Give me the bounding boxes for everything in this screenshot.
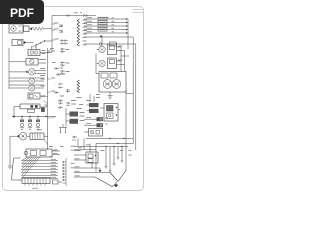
regulator box [24,26,30,32]
bottom labels [86,145,105,151]
alternator G1 [9,24,23,33]
main bus wire [48,16,56,119]
harness fan wires [22,157,59,179]
spark plug P3 [36,117,40,130]
pigtail labels [120,151,132,156]
fused feed wire 2 [84,21,128,24]
pigtail wire 1 [105,147,107,168]
pigtail wire 2 [109,147,111,172]
wire codes [87,18,93,32]
splice labels [71,98,91,109]
fused feed wire 4 [84,28,128,31]
wire [125,144,127,171]
ballast resistor R1 [27,133,48,145]
wire [96,143,133,144]
diode D1 [30,27,33,30]
wire [27,42,33,44]
wire [44,28,52,30]
connector pin C9 [56,73,61,75]
page card background [3,7,144,191]
sensor pin [72,136,77,140]
gauge U2 [28,46,52,55]
horn unit D3 [84,123,108,127]
lower bus wire [48,48,53,150]
label 15 [42,60,46,64]
wire [95,144,97,172]
relay module K3 [108,58,125,69]
wire [74,147,100,150]
thermal breaker wire [84,35,128,41]
relay module K2 [108,44,125,55]
terminal labels [50,49,56,85]
twin relay K4 [100,104,120,122]
misc labels [37,97,48,130]
ground G3 [98,168,101,172]
relay K5 [74,152,98,168]
diode D4 [24,41,27,44]
ground [108,92,113,98]
right bus wire [127,19,129,49]
component codes [119,46,123,60]
wire [101,37,103,46]
connector pin C6 [54,91,59,93]
wire [124,51,126,72]
terminal block TB1 [41,108,45,112]
wire [121,55,129,57]
title block double line [132,10,143,13]
splice node C [66,89,70,93]
fuse block F5 [66,108,78,126]
bus tie wire [100,146,128,147]
feed wire 7 [84,42,120,46]
wire [128,37,133,144]
fuse row labels [80,113,85,121]
wire [74,176,95,178]
inline fuse F9 [53,180,63,184]
splice node A [59,25,63,33]
lamp H4 [97,46,106,52]
pin numbers [112,18,115,32]
connector pin C2 [60,48,65,53]
ecu labels [49,146,82,168]
wire label texture [37,18,132,178]
horn unit D2 [84,117,108,121]
wire [78,139,90,153]
ECU pin header [62,158,66,186]
splice node B [58,83,63,89]
splice wire V [95,171,126,187]
wire [86,138,133,139]
connector pin C8 [54,67,59,69]
blower motor M1 [10,132,27,140]
fused feed wire 3 [84,24,128,27]
motor labels [96,95,100,98]
HT bus wire [12,115,56,118]
spark plug P1 [20,117,24,130]
connector pin pair [60,39,68,45]
wire [74,167,100,169]
junction wire [33,40,52,46]
wire [120,44,136,150]
pigtail wire 4 [117,147,119,159]
fused feed wire 5 [84,32,128,33]
harness labels [51,159,57,177]
multipin connector X3 [18,178,50,186]
connector arrows column X5 [77,80,79,93]
switch S2 [59,124,67,133]
pin labels [83,20,88,45]
fused feed wire 1 [84,17,128,20]
spark plug P2 [28,117,32,130]
wire [9,84,44,86]
ground G2 [114,182,118,188]
ground strap [8,160,12,169]
indicator lamp H3 [9,85,44,91]
node labels [52,50,70,97]
wire [8,48,10,89]
supply rail wire [52,14,109,17]
connector arrows column X4 [77,19,79,46]
connector pin C7 [58,106,63,108]
PDF badge [0,0,44,24]
junction block X6 [87,103,99,113]
pigtail wire 5 [121,147,123,162]
connector label [32,187,38,189]
lamp H5 [97,60,106,66]
connector pin C3 [60,62,65,67]
ignition coil T1 [14,104,47,116]
connector housing X2 [12,158,21,180]
rail label [74,12,83,14]
heater element zigzag [32,27,44,30]
wire [126,90,133,144]
label 31 [51,23,59,117]
connector pin C4 [60,70,65,75]
fuse values [100,19,106,30]
wiper motor assembly M2 [96,54,126,93]
label 30 [42,51,46,54]
connector pin C5 [58,100,70,106]
label 49a [41,79,46,86]
warning lamp H1 [9,69,46,75]
relay K1 [28,93,48,104]
wire [90,94,94,102]
pigtail wire 3 [113,147,115,165]
relay labels [75,118,92,176]
label 49 [40,69,45,76]
wire [74,172,110,174]
fuel gauge U3 [9,59,46,66]
battery box B1 [12,40,23,46]
indicator lamp H2 [9,78,44,84]
ECU U1 [24,149,60,157]
wire [9,136,11,160]
wire [120,47,122,71]
sensor B2 [84,129,103,137]
wire [9,77,44,79]
